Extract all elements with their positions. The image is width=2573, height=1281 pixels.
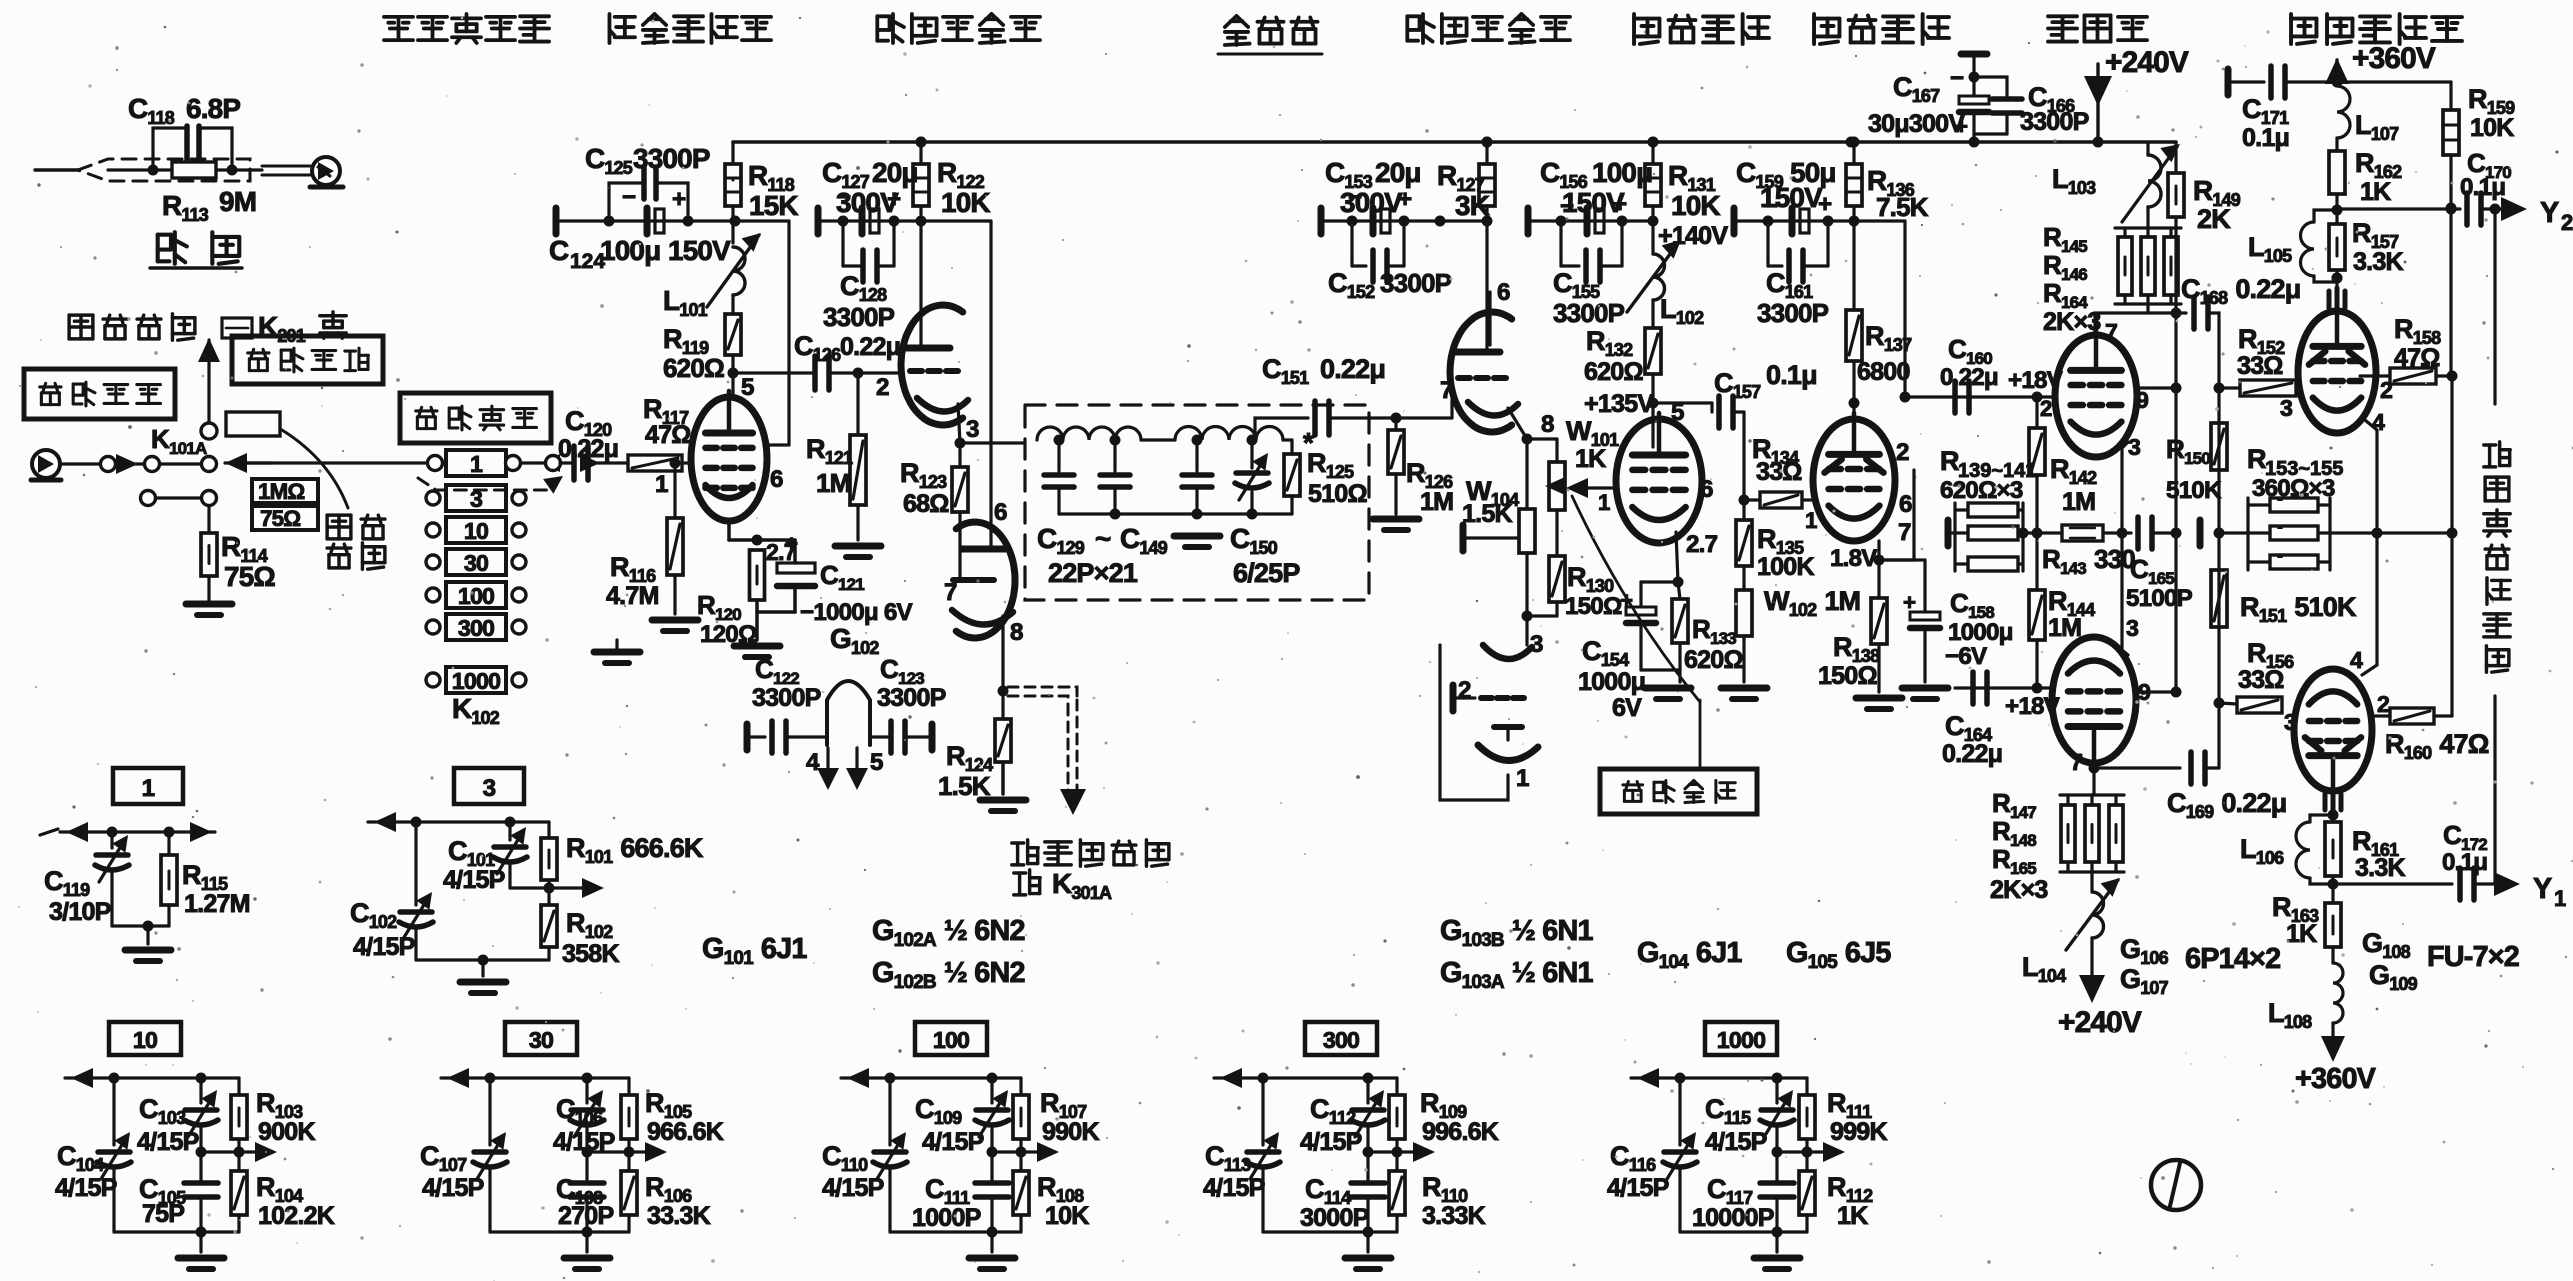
svg-text:C1680.22μ: C1680.22μ (2181, 274, 2300, 308)
svg-text:75P: 75P (142, 1200, 184, 1228)
svg-text:900K: 900K (258, 1118, 315, 1146)
svg-text:−: − (1950, 65, 1964, 92)
svg-text:1000μ: 1000μ (1948, 619, 2013, 646)
svg-text:966.6K: 966.6K (647, 1118, 724, 1146)
svg-text:510K: 510K (2166, 477, 2222, 504)
svg-text:3: 3 (966, 416, 979, 443)
svg-text:2K: 2K (2197, 204, 2231, 234)
svg-text:9M: 9M (219, 186, 256, 217)
svg-text:1000μ: 1000μ (1578, 668, 1645, 696)
svg-text:4.7M: 4.7M (606, 582, 659, 610)
svg-text:4/15P: 4/15P (822, 1174, 884, 1202)
svg-text:3000P: 3000P (1300, 1204, 1369, 1232)
svg-text:5: 5 (741, 374, 754, 401)
svg-text:6: 6 (1497, 279, 1510, 306)
svg-text:4/15P: 4/15P (922, 1128, 984, 1156)
svg-text:4/15P: 4/15P (1705, 1128, 1767, 1156)
svg-text:0.1μ: 0.1μ (2460, 174, 2505, 201)
svg-text:−6V: −6V (1945, 643, 1987, 670)
svg-text:100: 100 (458, 583, 494, 609)
svg-text:620Ω: 620Ω (1584, 358, 1643, 386)
svg-text:1000: 1000 (1717, 1027, 1765, 1053)
svg-text:33.3K: 33.3K (647, 1202, 711, 1230)
svg-text:C1690.22μ: C1690.22μ (2167, 788, 2286, 822)
svg-text:R: R (2247, 444, 2266, 474)
svg-text:3300P: 3300P (752, 684, 821, 712)
svg-text:4/15P: 4/15P (553, 1128, 615, 1156)
svg-text:100μ: 100μ (600, 235, 660, 266)
svg-text:FU-7×2: FU-7×2 (2427, 941, 2519, 973)
svg-text:6.8P: 6.8P (186, 93, 240, 124)
svg-text:9: 9 (2136, 387, 2149, 413)
svg-text:+240V: +240V (2058, 1006, 2142, 1039)
svg-text:3300P: 3300P (2020, 108, 2089, 136)
svg-text:3: 3 (2128, 434, 2141, 460)
svg-text:3300P: 3300P (877, 684, 946, 712)
svg-text:+135V: +135V (1584, 390, 1654, 418)
svg-text:−: − (622, 184, 636, 211)
svg-text:1: 1 (2554, 886, 2566, 911)
svg-text:0.1μ: 0.1μ (1766, 360, 1817, 390)
svg-text:7.5K: 7.5K (1876, 192, 1929, 222)
svg-text:1M: 1M (2048, 614, 2081, 642)
svg-text:1M: 1M (2062, 488, 2095, 516)
svg-text:4/15P: 4/15P (353, 933, 415, 961)
svg-text:+: + (1903, 590, 1916, 615)
svg-text:20μ: 20μ (872, 157, 918, 188)
svg-text:6/25P: 6/25P (1233, 558, 1300, 588)
svg-text:R: R (1940, 446, 1959, 476)
svg-text:102.2K: 102.2K (258, 1202, 335, 1230)
svg-text:1: 1 (1516, 765, 1529, 792)
svg-text:4/15P: 4/15P (1203, 1174, 1265, 1202)
svg-text:3: 3 (483, 775, 496, 802)
svg-text:150V: 150V (668, 235, 731, 266)
svg-text:R151510K: R151510K (2240, 592, 2357, 626)
svg-text:360Ω×3: 360Ω×3 (2252, 475, 2335, 502)
svg-text:7: 7 (1440, 377, 1453, 404)
svg-text:1000P: 1000P (912, 1204, 981, 1232)
svg-text:620Ω×3: 620Ω×3 (1940, 477, 2023, 504)
svg-text:358K: 358K (562, 940, 619, 968)
svg-text:1K: 1K (1575, 445, 1606, 473)
svg-text:8: 8 (1541, 411, 1554, 438)
svg-text:3: 3 (2280, 395, 2293, 421)
svg-text:−: − (837, 184, 851, 211)
svg-text:+: + (1818, 191, 1832, 218)
svg-text:+: + (887, 186, 901, 213)
svg-text:4/15P: 4/15P (137, 1128, 199, 1156)
svg-text:10K: 10K (941, 187, 990, 218)
svg-text:47Ω: 47Ω (645, 421, 691, 449)
svg-text:2: 2 (1458, 677, 1471, 704)
svg-text:2: 2 (2377, 691, 2389, 717)
svg-text:+: + (672, 186, 686, 213)
svg-text:4/15P: 4/15P (55, 1174, 117, 1202)
svg-text:150Ω: 150Ω (1565, 593, 1622, 620)
svg-text:1: 1 (142, 775, 155, 802)
svg-text:510Ω: 510Ω (1308, 480, 1367, 508)
svg-text:2.7: 2.7 (1686, 531, 1718, 558)
svg-text:300: 300 (458, 615, 494, 641)
svg-text:−1000μ 6V: −1000μ 6V (800, 599, 913, 626)
svg-text:6: 6 (770, 466, 783, 493)
svg-text:6: 6 (1899, 491, 1912, 518)
svg-text:10K: 10K (2470, 114, 2514, 142)
svg-text:1.8V: 1.8V (1830, 545, 1877, 572)
svg-text:+360V: +360V (2295, 1063, 2377, 1095)
svg-text:3/10P: 3/10P (49, 898, 111, 926)
svg-text:3.3K: 3.3K (2355, 854, 2405, 882)
svg-text:22P×21: 22P×21 (1048, 558, 1138, 588)
svg-text:10000P: 10000P (1692, 1204, 1774, 1232)
svg-text:75Ω: 75Ω (224, 561, 275, 592)
svg-text:0.22μ: 0.22μ (1942, 740, 2002, 768)
svg-text:3.3K: 3.3K (2353, 248, 2403, 276)
svg-text:1: 1 (1598, 490, 1610, 515)
svg-text:1: 1 (655, 471, 668, 498)
svg-text:1M: 1M (816, 468, 851, 498)
svg-text:1: 1 (470, 451, 483, 477)
svg-text:2: 2 (876, 374, 889, 401)
svg-text:10: 10 (464, 518, 488, 544)
svg-text:1.27M: 1.27M (184, 890, 250, 918)
svg-text:5100P: 5100P (2126, 585, 2193, 612)
svg-text:6P14×2: 6P14×2 (2185, 943, 2280, 975)
svg-text:3: 3 (2126, 615, 2139, 641)
svg-text:1MΩ: 1MΩ (258, 479, 304, 504)
svg-text:100K: 100K (1757, 553, 1814, 581)
svg-text:10K: 10K (1045, 1202, 1089, 1230)
svg-text:120Ω: 120Ω (700, 621, 757, 648)
svg-text:4/15P: 4/15P (422, 1174, 484, 1202)
svg-text:30: 30 (464, 550, 488, 576)
svg-text:4/15P: 4/15P (1300, 1128, 1362, 1156)
svg-text:−: − (1348, 184, 1362, 211)
svg-text:0.22μ: 0.22μ (1320, 354, 1385, 384)
svg-text:+: + (1613, 191, 1627, 218)
svg-text:5: 5 (870, 749, 883, 776)
svg-text:+18V: +18V (2008, 367, 2063, 394)
svg-text:6: 6 (1700, 476, 1713, 503)
svg-text:6: 6 (994, 499, 1007, 526)
svg-text:15K: 15K (749, 190, 798, 221)
svg-text:10K: 10K (1671, 190, 1720, 221)
svg-text:+: + (1620, 588, 1633, 613)
svg-text:8: 8 (1010, 619, 1023, 646)
svg-text:3300P: 3300P (1380, 268, 1452, 298)
svg-text:Y: Y (2533, 873, 2552, 905)
svg-text:33Ω: 33Ω (2237, 352, 2283, 380)
svg-text:996.6K: 996.6K (1422, 1118, 1499, 1146)
svg-text:999K: 999K (1830, 1118, 1887, 1146)
svg-text:4: 4 (806, 749, 820, 776)
svg-text:620Ω: 620Ω (1684, 646, 1743, 674)
svg-text:75Ω: 75Ω (260, 506, 300, 531)
svg-text:4/15P: 4/15P (443, 866, 505, 894)
svg-text:2: 2 (1896, 439, 1909, 466)
svg-text:C: C (549, 235, 569, 266)
svg-text:10: 10 (133, 1027, 157, 1053)
svg-text:1.5K: 1.5K (1462, 500, 1512, 528)
svg-text:6V: 6V (1612, 694, 1642, 722)
svg-text:990K: 990K (1042, 1118, 1099, 1146)
svg-text:+: + (1398, 186, 1412, 213)
svg-text:7: 7 (1898, 519, 1911, 546)
svg-text:2K×3: 2K×3 (1990, 876, 2048, 904)
svg-text:68Ω: 68Ω (903, 490, 949, 518)
svg-text:0.22μ: 0.22μ (558, 435, 618, 463)
svg-text:3300P: 3300P (823, 302, 895, 332)
svg-text:7: 7 (2070, 749, 2082, 775)
svg-text:4: 4 (2350, 647, 2363, 673)
svg-text:0.1μ: 0.1μ (2442, 849, 2487, 876)
svg-text:6800: 6800 (1857, 358, 1910, 386)
svg-text:2: 2 (2561, 210, 2573, 235)
svg-text:0.22μ: 0.22μ (840, 333, 900, 361)
svg-text:3300P: 3300P (1553, 298, 1625, 328)
svg-text:620Ω: 620Ω (663, 353, 724, 383)
svg-text:4/15P: 4/15P (1607, 1174, 1669, 1202)
svg-text:150Ω: 150Ω (1818, 662, 1877, 690)
svg-text:+240V: +240V (2105, 46, 2189, 79)
svg-text:30: 30 (529, 1027, 553, 1053)
svg-text:1K: 1K (2360, 178, 2391, 206)
svg-text:30μ300V: 30μ300V (1868, 110, 1965, 138)
svg-text:1K: 1K (2286, 920, 2317, 948)
svg-text:1M: 1M (1420, 488, 1453, 516)
svg-text:3.33K: 3.33K (1422, 1202, 1486, 1230)
svg-text:1K: 1K (1837, 1202, 1868, 1230)
svg-text:7: 7 (944, 579, 957, 606)
svg-text:2: 2 (2040, 396, 2052, 421)
svg-text:100: 100 (933, 1027, 969, 1053)
svg-text:3300P: 3300P (1757, 298, 1829, 328)
svg-text:20μ: 20μ (1375, 157, 1421, 188)
svg-text:0.1μ: 0.1μ (2242, 124, 2289, 152)
svg-text:+360V: +360V (2352, 42, 2436, 75)
svg-text:1: 1 (1805, 508, 1817, 533)
svg-text:1000: 1000 (452, 668, 500, 694)
svg-text:33Ω: 33Ω (2238, 666, 2284, 694)
svg-text:~: ~ (1095, 523, 1111, 554)
svg-text:300: 300 (1323, 1027, 1359, 1053)
svg-text:Y: Y (2540, 197, 2559, 229)
svg-text:270P: 270P (558, 1202, 613, 1230)
svg-text:33Ω: 33Ω (1756, 458, 1802, 486)
